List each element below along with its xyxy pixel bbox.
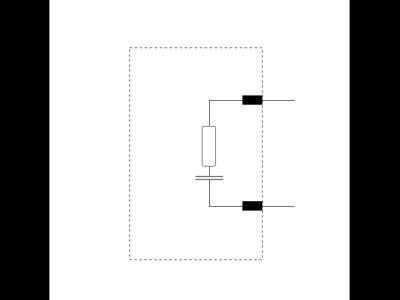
wire bottom (capacitor to terminal 2 and external lead) bbox=[210, 180, 295, 207]
terminal pad 1 (top black pin) bbox=[242, 95, 262, 104]
resistor R1 (IEC rectangle body) bbox=[202, 126, 216, 166]
wire top (node to terminal 1 and external lead) bbox=[210, 101, 295, 127]
dashed enclosure box bbox=[130, 48, 263, 260]
wire resistor to capacitor bbox=[209, 166, 211, 177]
capacitor C1 bottom plate bbox=[196, 179, 224, 181]
terminal pad 2 (bottom black pin) bbox=[242, 201, 262, 210]
capacitor C1 top plate bbox=[196, 176, 224, 178]
